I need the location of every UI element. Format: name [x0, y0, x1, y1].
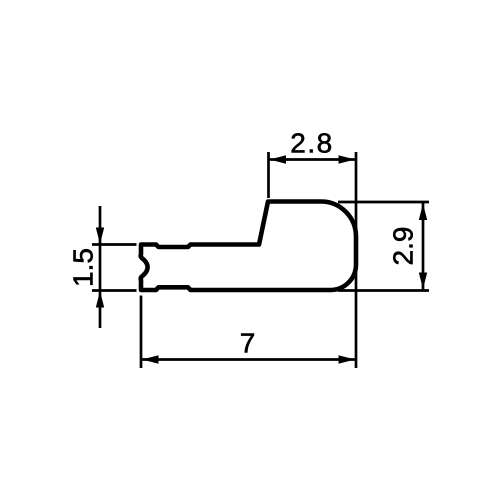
dimension 7 (bottom) — [141, 296, 355, 369]
svg-text:1.5: 1.5 — [68, 248, 99, 287]
dimension line — [269, 158, 356, 161]
svg-text:2.8: 2.8 — [290, 128, 333, 159]
svg-text:2.9: 2.9 — [388, 227, 419, 266]
left extension line — [267, 152, 270, 198]
dimension 1.5 (left) — [92, 206, 137, 328]
profile outline — [141, 202, 356, 291]
dimension 2.9 (right) — [338, 202, 429, 291]
svg-text:7: 7 — [240, 328, 256, 359]
dimension 2.8 (top) — [269, 152, 357, 368]
right long extension line (shared with 7) — [355, 152, 358, 368]
